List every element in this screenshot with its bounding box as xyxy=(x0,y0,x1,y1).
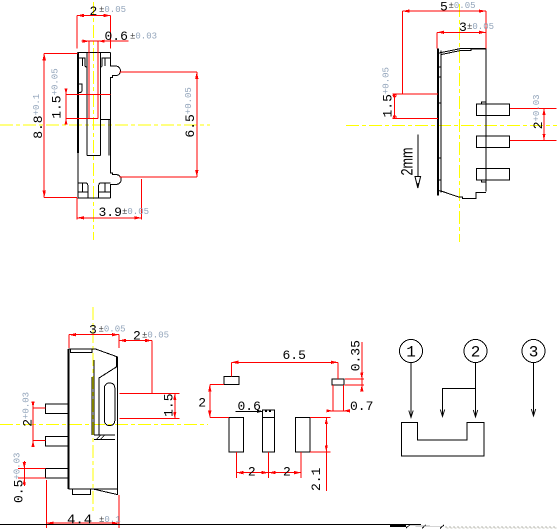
svg-text:2.1: 2.1 xyxy=(309,467,324,491)
svg-text:3.9: 3.9 xyxy=(99,205,122,220)
side view pin 2 xyxy=(477,136,510,148)
front view left bump xyxy=(78,84,82,92)
schematic terminal circle 2 xyxy=(464,340,487,363)
front view body outline xyxy=(78,53,122,198)
svg-text:±0.1: ±0.1 xyxy=(99,515,121,525)
side view dimension 5 +-0.05 xyxy=(403,0,486,94)
svg-text:1.5+0.05: 1.5+0.05 xyxy=(380,67,395,117)
land pattern dimension 2.1 xyxy=(309,418,330,491)
land pattern pad middle xyxy=(262,410,274,452)
svg-text:±0.05: ±0.05 xyxy=(467,22,494,32)
bottom side view dimension 3 +-0.05 xyxy=(69,322,126,348)
side view pin 3 xyxy=(477,169,510,182)
schematic common contact bracket xyxy=(401,423,484,457)
svg-text:3: 3 xyxy=(459,20,467,35)
svg-text:±0.03: ±0.03 xyxy=(130,32,157,42)
schematic terminal circle 1 xyxy=(400,340,423,363)
svg-text:±0.05: ±0.05 xyxy=(122,207,149,217)
svg-text:±0.05: ±0.05 xyxy=(99,5,126,15)
centerline vertical bottom side view xyxy=(92,307,94,511)
svg-text:2: 2 xyxy=(283,464,291,479)
svg-text:2: 2 xyxy=(198,395,206,410)
side view dimension 1.5 +0.05 xyxy=(380,67,438,119)
bottom side view pin A xyxy=(46,404,69,414)
front view bottom tabs xyxy=(78,183,111,198)
bottom side view dimension 1.5 travel xyxy=(120,393,180,418)
schematic wire terminal 2 xyxy=(473,363,477,418)
schematic wire terminal 3 xyxy=(531,363,535,417)
land pattern dimension 0.35 xyxy=(345,340,364,391)
side view pin 1 xyxy=(477,102,510,115)
front view dimension 2 +-0.05 xyxy=(77,4,126,49)
svg-text:4.4: 4.4 xyxy=(67,513,92,529)
bottom side view dimension 0.5 +0.03 pin thickness xyxy=(12,453,46,503)
land pattern dimension 6.5 xyxy=(231,348,338,379)
svg-text:2: 2 xyxy=(248,464,256,479)
svg-text:2: 2 xyxy=(471,344,481,362)
svg-text:2: 2 xyxy=(133,328,141,343)
bottom side view pin B xyxy=(46,436,69,446)
land pattern pad right xyxy=(295,418,310,452)
svg-text:8.8+0.1: 8.8+0.1 xyxy=(31,94,46,139)
svg-text:±0.05: ±0.05 xyxy=(449,1,476,11)
front view dimension 1.5 +0.05 xyxy=(50,68,111,124)
svg-text:3: 3 xyxy=(89,322,97,337)
svg-text:0.6: 0.6 xyxy=(105,29,128,44)
bottom side view dimension 4.4 +-0.1 xyxy=(46,480,120,529)
bottom side view dimension 2 +-0.05 xyxy=(119,328,169,393)
front view dimension 3.9 +-0.05 xyxy=(77,179,149,220)
land pattern dimension 0.7 xyxy=(326,385,373,414)
front view dimension 6.5 +0.05 xyxy=(120,72,199,177)
front view slider slot and knob xyxy=(87,53,111,156)
land pattern pad top-left xyxy=(224,376,239,384)
side view travel arrow 2mm xyxy=(398,135,421,189)
svg-text:1.5: 1.5 xyxy=(162,393,177,416)
land pattern dimension 2 pitch right xyxy=(269,452,302,479)
land pattern pad left xyxy=(229,418,244,452)
side view dimension 3 +-0.05 xyxy=(437,20,494,48)
svg-text:0.6: 0.6 xyxy=(238,399,261,414)
svg-text:6.5+0.05: 6.5+0.05 xyxy=(183,87,198,137)
side view body outline xyxy=(438,49,486,199)
centerline vertical front view xyxy=(92,2,94,240)
bottom border line xyxy=(0,524,421,526)
schematic wire branch terminal 2 xyxy=(440,389,475,417)
svg-text:2: 2 xyxy=(90,4,98,19)
svg-text:1.5+0.05: 1.5+0.05 xyxy=(50,68,65,118)
svg-text:2mm: 2mm xyxy=(398,148,417,176)
land pattern pad top-right bar xyxy=(332,379,344,385)
svg-text:0.35: 0.35 xyxy=(349,340,364,371)
schematic terminal circle 3 xyxy=(522,340,545,363)
centerline horizontal right side view xyxy=(346,124,557,126)
bottom side view dimension 2 +0.03 pin pitch xyxy=(21,392,46,447)
svg-text:6.5: 6.5 xyxy=(283,348,306,363)
land pattern dimension 2 vertical xyxy=(198,385,229,418)
svg-text:0.7: 0.7 xyxy=(350,399,373,414)
centerline horizontal bottom side view xyxy=(0,423,208,425)
bottom title block edge marks xyxy=(390,525,557,529)
schematic wire terminal 1 xyxy=(409,363,413,418)
front view dimension 8.8 +0.1 xyxy=(31,53,78,197)
svg-text:5: 5 xyxy=(440,0,448,14)
svg-text:3: 3 xyxy=(529,344,539,362)
land pattern leader 0.6 xyxy=(236,399,264,414)
bottom side view body outline xyxy=(69,349,118,495)
front view dimension 0.6 +-0.03 xyxy=(82,29,157,118)
centerline vertical right side view xyxy=(459,4,461,242)
side view dimension 2 +0.03 pin pitch xyxy=(510,94,557,140)
svg-text:±0.05: ±0.05 xyxy=(99,324,126,334)
svg-text:1: 1 xyxy=(406,344,416,362)
centerline horizontal front view xyxy=(0,124,210,126)
bottom side view pin C xyxy=(46,469,69,479)
svg-text:±0.05: ±0.05 xyxy=(142,330,169,340)
front view top flange xyxy=(78,58,111,67)
land pattern dimension 2 pitch left xyxy=(236,452,268,479)
